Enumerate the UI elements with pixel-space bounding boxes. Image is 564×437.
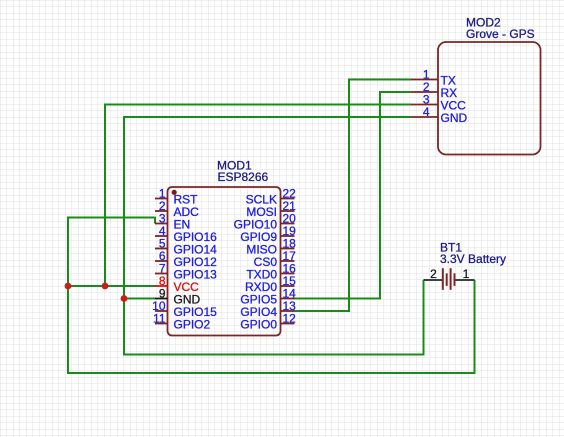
MOD1 anchor dot	[172, 190, 177, 195]
battery BT1 symbol	[424, 268, 475, 290]
wire GPS VCC vertical	[104, 104, 106, 287]
pin 7 GPIO13 (left)	[155, 262, 217, 282]
pin 4 GPIO16 (left)	[155, 224, 217, 244]
pin 10 GPIO15 (left)	[152, 299, 217, 319]
junction GND node	[121, 295, 128, 302]
pin 3 EN (left)	[155, 212, 190, 232]
wire GPS VCC horizontal	[104, 104, 411, 106]
svg-text:2: 2	[430, 267, 437, 281]
svg-text:1: 1	[463, 267, 470, 281]
pin 16 TXD0 (right)	[246, 262, 296, 282]
svg-text:Grove - GPS: Grove - GPS	[466, 27, 535, 41]
svg-text:4: 4	[423, 105, 430, 119]
pin 12 GPIO0 (right)	[240, 312, 296, 332]
junction VCC-GPS node	[102, 283, 109, 290]
svg-text:3.3V Battery: 3.3V Battery	[440, 252, 506, 266]
pin 9 GND (left)	[155, 287, 201, 307]
pin 11 GPIO2 (left)	[153, 312, 210, 332]
pin 8 VCC (left)	[155, 274, 199, 294]
wire battery pin 2 vertical	[423, 280, 425, 356]
wire EN pin jog	[154, 217, 156, 224]
wire GPS TX horizontal	[348, 79, 411, 81]
pin 2 ADC (left)	[155, 199, 199, 219]
wire GPS RX vertical	[379, 91, 381, 300]
wire battery pin 1 vertical	[474, 280, 476, 374]
pin 2 RX (GPS)	[411, 80, 457, 100]
pin 15 RXD0 (right)	[245, 274, 296, 294]
svg-text:11: 11	[153, 312, 166, 326]
pin 6 GPIO12 (left)	[155, 249, 217, 269]
pin 20 GPIO10 (right)	[234, 212, 297, 232]
svg-text:GPIO2: GPIO2	[174, 317, 211, 331]
pin 21 MOSI (right)	[246, 199, 296, 219]
pin 22 SCLK (right)	[246, 187, 297, 207]
pin 1 RST (left)	[155, 187, 198, 207]
wire GPS GND horizontal	[123, 116, 411, 118]
module MOD2 Grove-GPS body	[438, 42, 541, 155]
module MOD1 ESP8266 body	[168, 187, 281, 336]
svg-text:GND: GND	[441, 111, 468, 125]
wire bottom GND rail	[123, 354, 425, 356]
wire GND to pin 9	[123, 298, 156, 300]
junction VCC-EN node	[65, 283, 72, 290]
svg-text:GPIO0: GPIO0	[240, 317, 277, 331]
wire GND net vertical	[123, 116, 125, 356]
wire GPS TX vertical	[348, 79, 350, 313]
wire GPS RX horizontal	[379, 91, 411, 93]
wire GPIO4 horizontal	[295, 310, 351, 312]
wire GPIO5 horizontal	[295, 298, 382, 300]
svg-text:ESP8266: ESP8266	[218, 170, 269, 184]
pin 17 CS0 (right)	[254, 249, 297, 269]
svg-text:12: 12	[283, 312, 297, 326]
wire VCC rail to pin 8	[68, 285, 156, 287]
wire left VCC net vertical	[67, 217, 69, 375]
pin 14 GPIO5 (right)	[240, 287, 296, 307]
pin 3 VCC (GPS)	[411, 93, 466, 113]
pin 1 TX (GPS)	[411, 68, 456, 88]
pin 13 GPIO4 (right)	[240, 299, 296, 319]
pin 19 GPIO9 (right)	[240, 224, 296, 244]
wire EN horizontal	[67, 217, 154, 219]
wire bottom VCC rail	[67, 372, 476, 374]
pin 5 GPIO14 (left)	[155, 237, 217, 257]
pin 4 GND (GPS)	[411, 105, 468, 125]
pin 18 MISO (right)	[246, 237, 296, 257]
